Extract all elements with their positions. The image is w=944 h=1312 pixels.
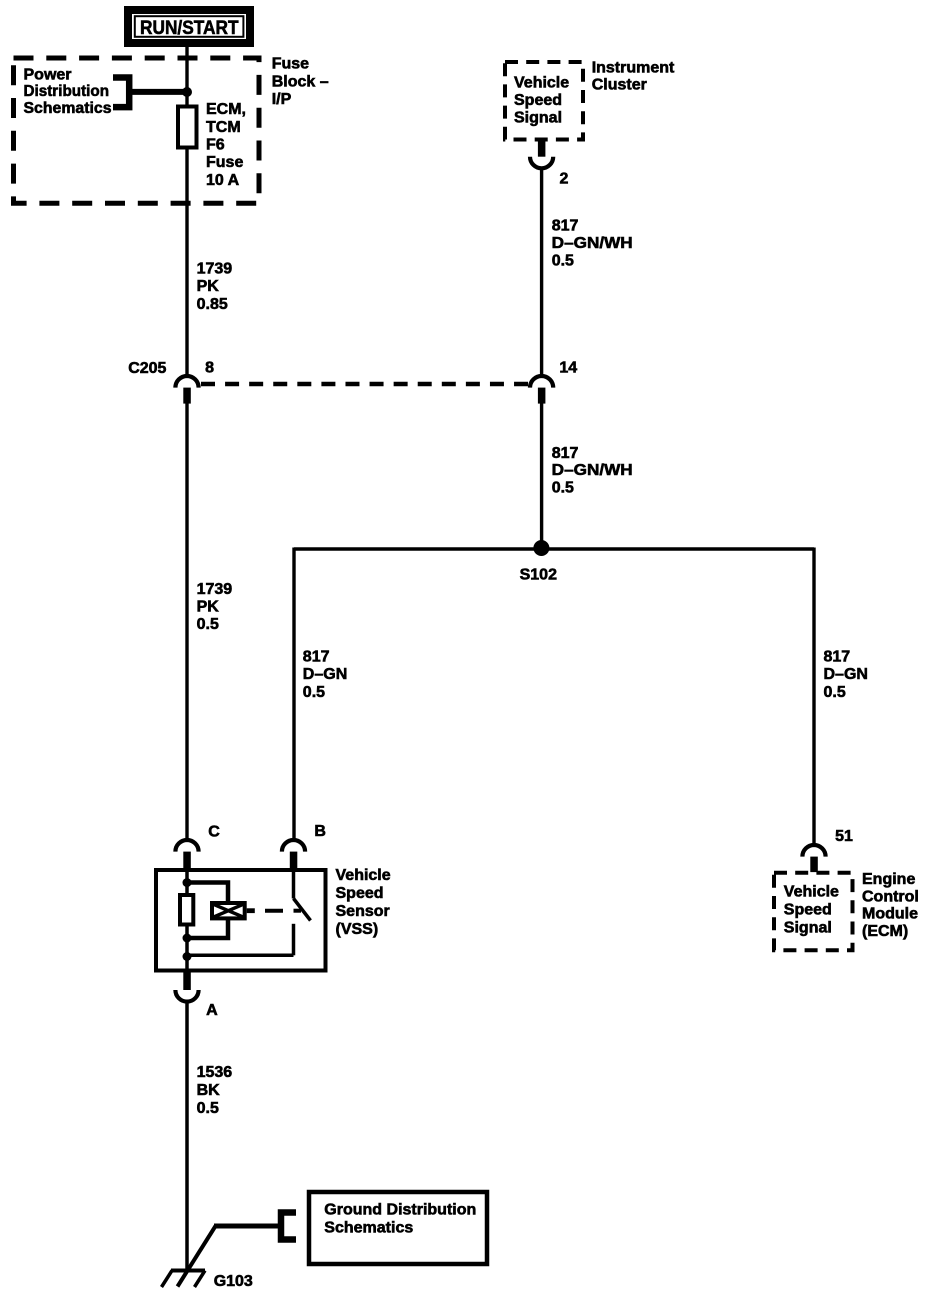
- wire VSS internal left (C to A): [185, 868, 189, 975]
- svg-text:Control: Control: [862, 888, 919, 905]
- label Vehicle Speed Signal (ECM): [784, 884, 839, 937]
- svg-text:BK: BK: [197, 1082, 221, 1099]
- dashed box ECM: [774, 873, 853, 950]
- connector VSS pin A (stub + cup): [175, 973, 198, 1002]
- box Vehicle Speed Sensor VSS: [156, 870, 326, 971]
- wire VSS internal loop: [187, 883, 228, 939]
- svg-text:PK: PK: [197, 598, 220, 615]
- label wire 1739 PK 0.85: [197, 261, 233, 313]
- label Instrument Cluster: [592, 60, 675, 94]
- svg-text:8: 8: [205, 359, 214, 376]
- svg-text:TCM: TCM: [206, 119, 241, 136]
- svg-text:1739: 1739: [197, 261, 233, 278]
- svg-text:Distribution: Distribution: [24, 83, 110, 100]
- svg-text:Vehicle: Vehicle: [336, 867, 391, 884]
- svg-text:D–GN: D–GN: [824, 666, 868, 683]
- svg-text:0.85: 0.85: [197, 296, 228, 313]
- svg-text:Schematics: Schematics: [324, 1219, 413, 1236]
- svg-text:(ECM): (ECM): [862, 923, 908, 940]
- wire cluster pin2 to C205 pin 14: [540, 169, 543, 375]
- svg-text:Power: Power: [24, 67, 72, 84]
- svg-text:G103: G103: [214, 1273, 253, 1290]
- speed sensor element (crossed box): [212, 903, 255, 918]
- label wire 1536 BK 0.5: [197, 1064, 233, 1117]
- switch (VSS internal): [187, 868, 311, 955]
- fuse F6 ECM,TCM 10A: [178, 107, 197, 148]
- label wire 817 D-GN 0.5 (left branch): [303, 649, 347, 701]
- bracket to Ground Distribution Schematics: [281, 1213, 296, 1240]
- wire fuse to connector C205 pin 8: [185, 147, 188, 375]
- dashed box Fuse Block - I/P: [14, 58, 260, 203]
- svg-text:Block –: Block –: [272, 73, 329, 90]
- dashed actuating link to switch: [265, 909, 301, 913]
- dashed box Instrument Cluster: [505, 62, 583, 140]
- svg-text:I/P: I/P: [272, 91, 292, 108]
- wire S102 to VSS pin B: [292, 548, 295, 839]
- svg-text:Module: Module: [862, 906, 918, 923]
- node loop bottom: [183, 934, 192, 943]
- connector ECM pin 51 (dome + stub): [802, 845, 825, 872]
- box Ground Distribution Schematics: [309, 1192, 487, 1264]
- splice S102 node: [533, 540, 549, 556]
- svg-text:Vehicle: Vehicle: [514, 75, 569, 92]
- svg-text:0.5: 0.5: [197, 616, 219, 633]
- svg-text:C: C: [208, 824, 220, 841]
- svg-text:Schematics: Schematics: [24, 100, 112, 117]
- svg-text:Ground Distribution: Ground Distribution: [324, 1201, 476, 1218]
- label wire 817 D-GN/WH 0.5 (lower): [552, 445, 633, 497]
- wire bracket to junction: [129, 89, 187, 95]
- ground G103: [162, 1271, 206, 1288]
- node loop top: [183, 878, 192, 887]
- svg-text:Instrument: Instrument: [592, 60, 675, 77]
- svg-text:1739: 1739: [197, 581, 233, 598]
- svg-text:1536: 1536: [197, 1064, 233, 1081]
- svg-text:Vehicle: Vehicle: [784, 884, 839, 901]
- svg-text:D–GN/WH: D–GN/WH: [552, 235, 633, 252]
- connector cluster pin 2 (stub + cup): [530, 140, 553, 169]
- wire splice bus S102 horizontal: [294, 547, 814, 550]
- label wire 1739 PK 0.5: [197, 581, 233, 633]
- label Power Distribution Schematics: [24, 67, 112, 117]
- connector C205 pin 8 (dome + stub): [175, 376, 198, 404]
- node switch return: [183, 952, 192, 961]
- svg-text:817: 817: [303, 649, 330, 666]
- resistor (VSS internal): [180, 895, 193, 925]
- svg-text:ECM,: ECM,: [206, 101, 246, 118]
- svg-text:Cluster: Cluster: [592, 77, 647, 94]
- connector VSS pin B (dome + stub): [282, 840, 305, 868]
- svg-text:0.5: 0.5: [552, 253, 574, 270]
- box RUN/START (hot-in-run feed): [128, 10, 250, 43]
- wire C205 pin14 to splice S102: [540, 404, 543, 550]
- svg-text:B: B: [314, 823, 326, 840]
- label fuse ECM, TCM F6 Fuse 10 A: [206, 101, 246, 189]
- label Engine Control Module (ECM): [862, 871, 919, 940]
- svg-text:0.5: 0.5: [197, 1100, 219, 1117]
- svg-text:S102: S102: [520, 567, 557, 584]
- svg-text:D–GN/WH: D–GN/WH: [552, 462, 633, 479]
- svg-text:D–GN: D–GN: [303, 666, 347, 683]
- label Vehicle Speed Sensor (VSS): [336, 867, 391, 938]
- svg-text:Speed: Speed: [514, 92, 562, 109]
- svg-text:Signal: Signal: [514, 110, 562, 127]
- svg-text:Signal: Signal: [784, 920, 832, 937]
- svg-text:51: 51: [835, 828, 853, 845]
- connector C205 pin 14 (dome + stub): [530, 376, 553, 404]
- svg-text:(VSS): (VSS): [336, 921, 379, 938]
- svg-text:0.5: 0.5: [824, 684, 846, 701]
- label Fuse Block - I/P: [272, 56, 329, 108]
- svg-text:Fuse: Fuse: [272, 56, 309, 73]
- wire from RUN/START to fuse: [185, 45, 188, 106]
- label wire 817 D-GN 0.5 (right branch): [824, 649, 868, 701]
- wire branch to ground distribution (diagonal): [178, 1226, 216, 1287]
- svg-text:0.5: 0.5: [303, 684, 325, 701]
- svg-text:817: 817: [824, 649, 851, 666]
- svg-text:Speed: Speed: [336, 885, 384, 902]
- dashed in-line connector C205 tie line: [201, 382, 528, 387]
- svg-text:10 A: 10 A: [206, 172, 240, 189]
- connector VSS pin C (dome + stub): [175, 840, 198, 868]
- svg-text:14: 14: [559, 359, 577, 376]
- svg-text:Engine: Engine: [862, 871, 915, 888]
- svg-text:817: 817: [552, 218, 579, 235]
- svg-text:C205: C205: [128, 360, 166, 377]
- junction node on feed wire: [182, 87, 192, 97]
- svg-text:Speed: Speed: [784, 902, 832, 919]
- wire branch horizontal: [214, 1224, 278, 1229]
- svg-text:A: A: [206, 1002, 218, 1019]
- svg-text:F6: F6: [206, 137, 225, 154]
- label wire 817 D-GN/WH 0.5 (upper): [552, 218, 633, 270]
- bracket from Power Distribution Schematics: [113, 78, 129, 108]
- svg-text:PK: PK: [197, 278, 220, 295]
- wire VSS pin A to ground G103: [185, 1003, 189, 1271]
- svg-text:2: 2: [560, 170, 569, 187]
- wire S102 to ECM pin 51: [812, 548, 815, 844]
- svg-text:Sensor: Sensor: [336, 903, 390, 920]
- svg-text:RUN/START: RUN/START: [140, 17, 239, 39]
- svg-text:817: 817: [552, 445, 579, 462]
- wire C205 pin 8 to VSS pin C: [185, 404, 188, 839]
- label Vehicle Speed Signal (cluster): [514, 75, 569, 127]
- svg-text:0.5: 0.5: [552, 479, 574, 496]
- svg-text:Fuse: Fuse: [206, 154, 243, 171]
